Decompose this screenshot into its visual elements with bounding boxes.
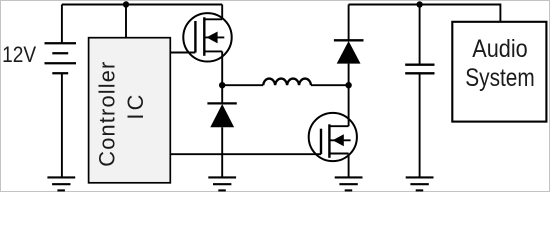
Audio System box [452,22,546,122]
diode D2 boost rectifier [334,5,364,86]
svg-text:12V: 12V [2,42,36,67]
ground symbol at M2 source [335,177,363,190]
wire top-left supply rail [62,4,222,6]
junction dot on output rail [416,1,422,7]
wire M2 source down to ground [348,154,350,178]
wire node B down to M2 drain [348,85,350,126]
svg-text:System: System [465,64,535,92]
svg-text:Audio: Audio [472,35,528,63]
wire battery negative down to ground [61,73,63,177]
wire inductor to node B [311,84,349,86]
wire node A to inductor [222,84,263,86]
wire rail down to controller IC top pin [125,5,127,38]
node A junction dot [219,82,225,88]
wire gate drive to low-side MOSFET M2 [170,153,321,155]
svg-text:IC: IC [123,95,148,120]
wire gate drive to high-side MOSFET M1 [170,52,195,54]
wire top-right output rail [349,5,501,22]
battery B1 12V [45,43,77,73]
mosfet M2 low-side switch [309,113,357,161]
node B junction dot [345,82,351,88]
diode D1 freewheel [207,85,236,177]
ground symbol at D1 anode [208,177,236,190]
Controller IC box [89,38,171,183]
wire M1 source down to node A [221,51,223,85]
ground symbol at C1 [406,177,434,190]
wire battery positive up to top rail [61,5,63,44]
label Controller IC [95,62,148,167]
capacitor C1 output filter [405,5,434,178]
ground symbol at battery [47,177,75,190]
inductor L1 [263,79,311,86]
mosfet M1 high-side switch [183,5,231,62]
junction dot on top rail [123,1,129,7]
